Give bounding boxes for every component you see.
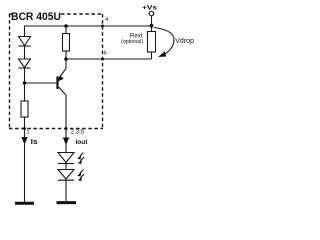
svg-text:(optional): (optional): [121, 39, 143, 45]
svg-text:Iout: Iout: [76, 139, 89, 146]
svg-text:Vdrop: Vdrop: [175, 38, 194, 45]
svg-text:BCR 405U: BCR 405U: [11, 11, 61, 23]
svg-text:+Vs: +Vs: [142, 4, 157, 11]
svg-text:6: 6: [104, 51, 107, 57]
svg-text:2,3,5: 2,3,5: [71, 130, 85, 136]
svg-text:4: 4: [105, 17, 108, 23]
svg-text:1: 1: [27, 130, 30, 136]
svg-text:Is: Is: [31, 139, 38, 146]
